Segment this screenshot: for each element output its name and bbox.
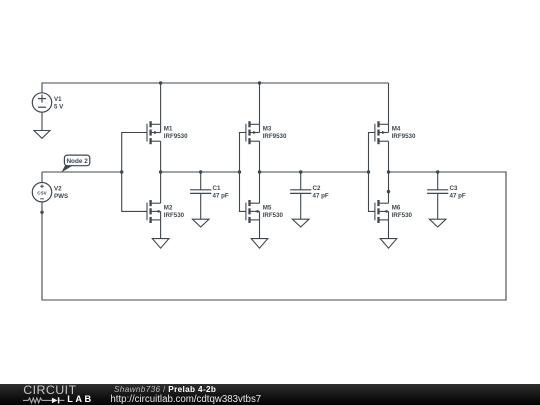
footer bar xyxy=(0,384,540,405)
svg-text:M1: M1 xyxy=(164,126,173,133)
svg-text:IRF530: IRF530 xyxy=(392,212,413,219)
ground under C2 xyxy=(292,219,309,227)
wire M3 source to +5V rail xyxy=(259,83,261,124)
junction below V2 xyxy=(40,211,43,214)
ground under M5 xyxy=(251,239,268,249)
transistor M5 (IRF530) xyxy=(246,200,284,223)
wire M2 source to ground xyxy=(160,220,162,239)
wire M1 drain to M2 drain (output node 1) xyxy=(160,141,162,203)
wire gate tie M4/M6 xyxy=(369,133,375,212)
svg-text:M5: M5 xyxy=(263,205,272,212)
svg-text:IRF9530: IRF9530 xyxy=(392,133,416,140)
transistor M1 (IRF9530) xyxy=(147,121,188,144)
wire input net Node 2 xyxy=(42,171,122,173)
svg-text:C1: C1 xyxy=(213,185,221,192)
svg-text:Node 2: Node 2 xyxy=(66,158,88,165)
wire M4 source to +5V rail xyxy=(388,83,390,124)
svg-text:M3: M3 xyxy=(263,126,272,133)
ground under C3 xyxy=(429,219,446,227)
junction M1 source on rail xyxy=(159,81,162,84)
capacitor C2 47 pF xyxy=(290,185,329,200)
ground under M2 xyxy=(152,239,169,249)
ground under M6 xyxy=(380,239,397,249)
wire M1 source to +5V rail xyxy=(160,83,162,124)
wire stage 2 output to stage 3 gates xyxy=(260,171,369,173)
wire V1 minus to ground xyxy=(41,112,43,130)
capacitor C3 47 pF xyxy=(427,185,466,200)
junction gate tie node stage 1 xyxy=(120,170,123,173)
wire stage 3 output loop back to V2 minus xyxy=(42,172,506,300)
svg-text:IRF530: IRF530 xyxy=(164,212,185,219)
resistor zigzag in logo xyxy=(23,398,52,403)
svg-text:47 pF: 47 pF xyxy=(450,193,466,200)
wire C3 to ground xyxy=(437,193,439,219)
junction on M4 drain wire xyxy=(387,190,390,193)
CircuitLab logo xyxy=(0,384,104,405)
voltage source V1 5 V xyxy=(32,93,64,112)
junction gate tie node stage 3 xyxy=(367,170,370,173)
wire C1 to ground xyxy=(200,193,202,219)
transistor M6 (IRF530) xyxy=(375,200,413,223)
wire M4 drain to M6 drain (output node 3) xyxy=(388,141,390,203)
wire M6 source to ground xyxy=(388,220,390,239)
transistor M4 (IRF9530) xyxy=(375,121,416,144)
svg-text:IRF9530: IRF9530 xyxy=(164,133,188,140)
junction C2 tap xyxy=(299,170,302,173)
transistor M2 (IRF530) xyxy=(147,200,185,223)
svg-text:IRF9530: IRF9530 xyxy=(263,133,287,140)
svg-text:V1: V1 xyxy=(54,96,62,103)
junction stage 2 output node xyxy=(258,170,261,173)
svg-text:47 pF: 47 pF xyxy=(213,193,229,200)
wire stage 1 output to stage 2 gates xyxy=(161,171,240,173)
voltage source V2 PWS xyxy=(32,183,68,202)
svg-text:47 pF: 47 pF xyxy=(313,193,329,200)
svg-text:5 V: 5 V xyxy=(54,104,64,111)
svg-text:V2: V2 xyxy=(54,185,62,192)
svg-text:C2: C2 xyxy=(313,185,321,192)
svg-text:M2: M2 xyxy=(164,205,173,212)
junction M3 source on rail xyxy=(258,81,261,84)
svg-text:M6: M6 xyxy=(392,205,401,212)
ground under C1 xyxy=(192,219,209,227)
transistor M3 (IRF9530) xyxy=(246,121,287,144)
svg-text:CSV: CSV xyxy=(37,191,47,196)
wire output node to C2 xyxy=(300,172,302,190)
wire M5 source to ground xyxy=(259,220,261,239)
wire gate tie M1/M2 xyxy=(122,133,147,212)
svg-text:IRF530: IRF530 xyxy=(263,212,284,219)
wire V2 plus up to input node xyxy=(41,172,43,183)
diode symbol in logo xyxy=(52,398,58,404)
node Node 2 flag xyxy=(62,155,90,172)
wire output node to C1 xyxy=(200,172,202,190)
ground under V1 xyxy=(34,131,50,139)
junction C3 tap xyxy=(436,170,439,173)
wire M3 drain to M5 drain (output node 2) xyxy=(259,141,261,203)
junction gate tie node stage 2 xyxy=(238,170,241,173)
svg-text:C3: C3 xyxy=(450,185,458,192)
junction stage 3 output node xyxy=(387,170,390,173)
svg-text:M4: M4 xyxy=(392,126,401,133)
wire output node to C3 xyxy=(437,172,439,190)
capacitor C1 47 pF xyxy=(190,185,229,200)
svg-text:PWS: PWS xyxy=(54,193,68,200)
wire +5V rail xyxy=(42,83,389,93)
junction stage 1 output node xyxy=(159,170,162,173)
wire C2 to ground xyxy=(300,193,302,219)
junction C1 tap xyxy=(199,170,202,173)
wire gate tie M3/M5 xyxy=(240,133,246,212)
